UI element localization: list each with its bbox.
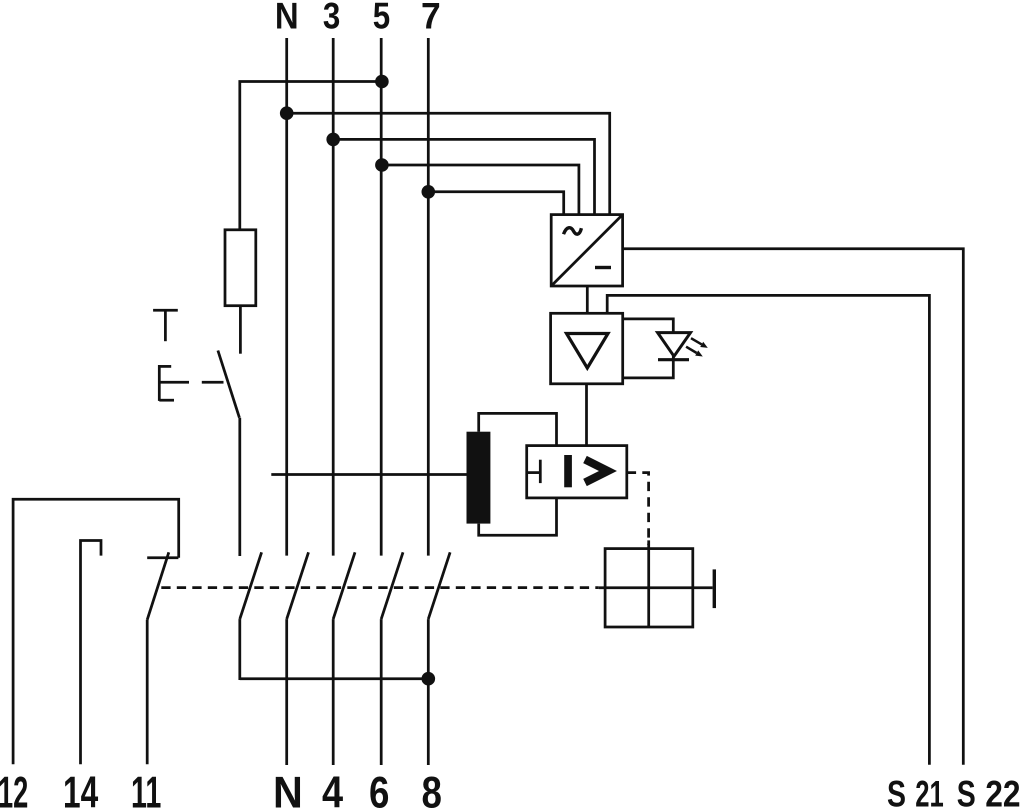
svg-text:N: N [275,0,299,36]
svg-text:8: 8 [422,769,442,812]
svg-text:22: 22 [985,773,1020,812]
svg-text:3: 3 [323,0,340,36]
svg-text:6: 6 [369,769,389,812]
svg-text:7: 7 [421,0,441,36]
svg-text:S: S [887,773,906,812]
svg-text:11: 11 [131,769,161,812]
svg-text:5: 5 [373,0,390,36]
svg-text:N: N [273,769,303,812]
svg-text:4: 4 [322,769,343,812]
svg-text:14: 14 [63,769,98,812]
svg-text:S: S [957,773,976,812]
svg-text:21: 21 [915,773,944,812]
svg-text:12: 12 [0,769,28,812]
